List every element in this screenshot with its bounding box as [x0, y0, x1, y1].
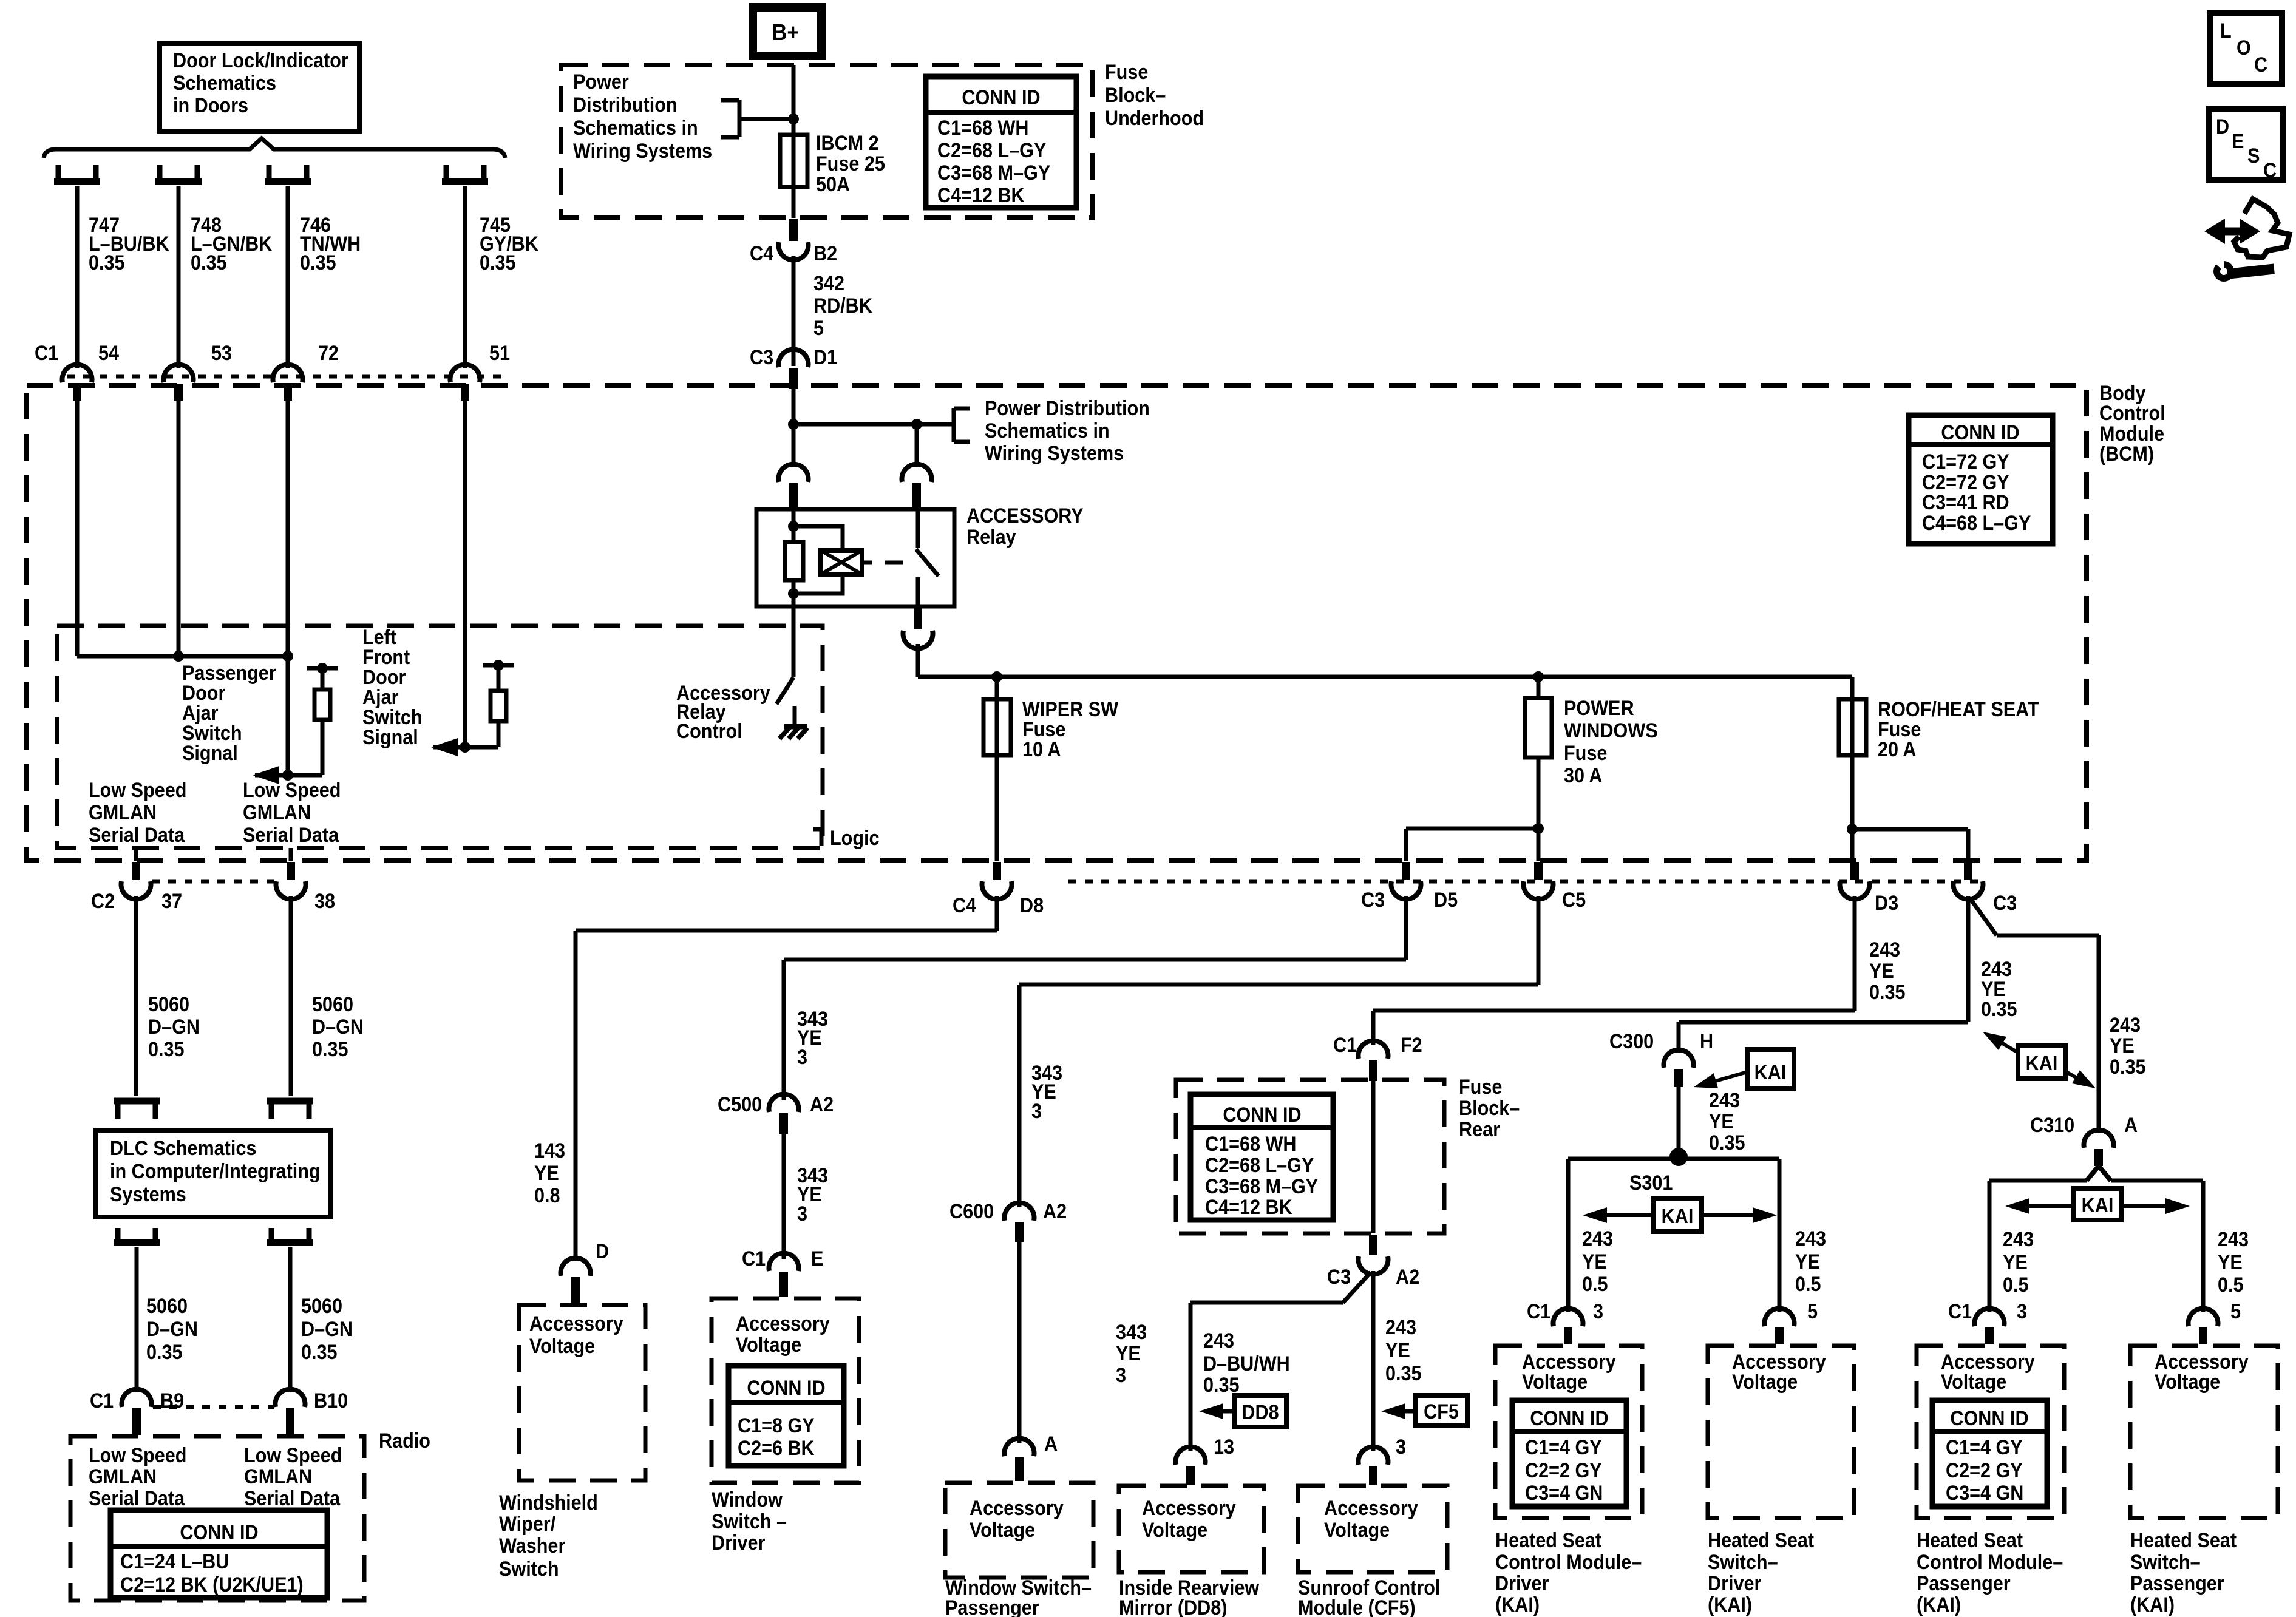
svg-text:C500: C500 [718, 1093, 762, 1116]
svg-text:YE: YE [2003, 1251, 2028, 1274]
svg-text:50A: 50A [816, 173, 850, 196]
svg-text:YE: YE [534, 1162, 559, 1185]
svg-text:Module (CF5): Module (CF5) [1298, 1596, 1416, 1617]
svg-text:GMLAN: GMLAN [89, 801, 157, 824]
svg-text:243: 243 [1709, 1089, 1740, 1112]
svg-text:C1: C1 [1333, 1034, 1357, 1057]
svg-text:Fuse: Fuse [1105, 61, 1148, 84]
svg-text:Driver: Driver [712, 1531, 766, 1554]
svg-text:Low Speed: Low Speed [243, 779, 341, 802]
svg-text:5: 5 [813, 317, 824, 340]
svg-text:C310: C310 [2030, 1114, 2074, 1137]
svg-text:C1=68 WH: C1=68 WH [1205, 1133, 1296, 1156]
svg-text:Passenger: Passenger [1917, 1572, 2011, 1595]
svg-text:Voltage: Voltage [1142, 1519, 1207, 1542]
svg-text:YE: YE [2110, 1034, 2135, 1057]
svg-text:Fuse: Fuse [1564, 742, 1607, 765]
svg-text:GMLAN: GMLAN [243, 801, 311, 824]
svg-text:C2: C2 [91, 890, 115, 913]
svg-text:Serial Data: Serial Data [243, 824, 339, 847]
svg-text:C3=4 GN: C3=4 GN [1525, 1482, 1603, 1505]
svg-text:CONN ID: CONN ID [1950, 1407, 2028, 1430]
svg-text:0.8: 0.8 [534, 1184, 560, 1207]
svg-text:KAI: KAI [2082, 1194, 2114, 1217]
svg-text:H: H [1700, 1030, 1713, 1053]
svg-text:Voltage: Voltage [1941, 1371, 2006, 1394]
svg-text:Passenger: Passenger [2130, 1572, 2224, 1595]
svg-text:in Doors: in Doors [173, 94, 248, 117]
svg-text:C1=4 GY: C1=4 GY [1946, 1436, 2023, 1459]
svg-text:Low Speed: Low Speed [89, 1444, 186, 1467]
svg-text:38: 38 [314, 890, 335, 913]
svg-text:C1: C1 [90, 1389, 114, 1412]
svg-text:Control Module–: Control Module– [1495, 1551, 1642, 1574]
svg-text:243: 243 [2003, 1228, 2034, 1251]
svg-text:S: S [2247, 144, 2260, 168]
svg-text:Voltage: Voltage [1324, 1519, 1390, 1542]
svg-text:0.5: 0.5 [2003, 1273, 2029, 1297]
svg-text:C3=41 RD: C3=41 RD [1922, 491, 2009, 514]
svg-text:GMLAN: GMLAN [89, 1465, 157, 1488]
svg-text:KAI: KAI [1662, 1205, 1694, 1228]
svg-text:YE: YE [1795, 1250, 1820, 1273]
svg-text:243: 243 [1869, 938, 1900, 961]
svg-text:Fuse: Fuse [1459, 1076, 1502, 1099]
svg-text:Schematics in: Schematics in [573, 117, 698, 140]
svg-text:0.35: 0.35 [1709, 1131, 1745, 1154]
svg-text:Accessory: Accessory [736, 1312, 830, 1335]
svg-text:Block–: Block– [1459, 1097, 1520, 1120]
svg-text:C1: C1 [1527, 1300, 1550, 1323]
svg-text:Power: Power [573, 70, 629, 93]
svg-text:GMLAN: GMLAN [244, 1465, 312, 1488]
svg-text:243: 243 [1203, 1329, 1234, 1352]
svg-text:Driver: Driver [1495, 1572, 1549, 1595]
svg-text:D1: D1 [813, 346, 837, 369]
svg-text:C4=12 BK: C4=12 BK [937, 184, 1025, 207]
svg-text:342: 342 [813, 272, 844, 295]
svg-text:Voltage: Voltage [1522, 1371, 1588, 1394]
svg-text:Schematics in: Schematics in [985, 419, 1110, 442]
svg-text:RD/BK: RD/BK [813, 294, 872, 317]
svg-text:0.35: 0.35 [2110, 1056, 2146, 1079]
svg-text:YE: YE [1116, 1342, 1141, 1365]
svg-text:C3: C3 [750, 346, 773, 369]
svg-text:Logic: Logic [830, 827, 880, 850]
svg-text:Voltage: Voltage [736, 1334, 801, 1357]
svg-text:243: 243 [1795, 1227, 1826, 1250]
svg-text:3: 3 [797, 1046, 807, 1069]
svg-text:0.5: 0.5 [1582, 1273, 1608, 1296]
svg-text:Serial Data: Serial Data [244, 1487, 341, 1510]
svg-text:Control: Control [2099, 402, 2165, 425]
svg-text:343: 343 [1116, 1321, 1147, 1344]
svg-text:C4=68 L–GY: C4=68 L–GY [1922, 512, 2031, 535]
svg-text:F2: F2 [1401, 1034, 1422, 1057]
svg-text:Schematics: Schematics [173, 72, 276, 95]
svg-text:C3: C3 [1361, 889, 1385, 912]
svg-text:0.35: 0.35 [89, 251, 125, 274]
svg-text:0.35: 0.35 [312, 1038, 348, 1061]
svg-text:3: 3 [1116, 1364, 1126, 1387]
svg-text:Accessory: Accessory [1142, 1497, 1236, 1520]
svg-text:O: O [2237, 36, 2251, 59]
svg-text:72: 72 [318, 342, 339, 365]
svg-text:D3: D3 [1875, 892, 1898, 915]
svg-text:C2=2 GY: C2=2 GY [1525, 1459, 1602, 1482]
svg-text:C1=24 L–BU: C1=24 L–BU [120, 1550, 229, 1573]
svg-text:C1: C1 [742, 1247, 766, 1270]
svg-text:Washer: Washer [499, 1534, 566, 1558]
svg-text:Switch–: Switch– [2130, 1551, 2201, 1574]
svg-text:in Computer/Integrating: in Computer/Integrating [110, 1160, 321, 1183]
svg-text:Underhood: Underhood [1105, 107, 1204, 130]
svg-text:Signal: Signal [182, 742, 238, 765]
svg-text:A: A [2124, 1114, 2138, 1137]
svg-text:143: 143 [534, 1139, 565, 1162]
svg-text:D–GN: D–GN [148, 1015, 200, 1039]
svg-text:0.35: 0.35 [148, 1038, 185, 1061]
svg-text:Passenger: Passenger [945, 1596, 1039, 1617]
svg-text:Control: Control [676, 720, 742, 743]
svg-text:CONN ID: CONN ID [747, 1377, 825, 1400]
svg-text:ACCESSORY: ACCESSORY [966, 504, 1084, 527]
svg-text:A: A [1044, 1432, 1058, 1456]
svg-text:Voltage: Voltage [529, 1335, 595, 1358]
svg-text:5060: 5060 [312, 993, 353, 1016]
svg-text:YE: YE [1385, 1339, 1410, 1362]
svg-text:0.5: 0.5 [2218, 1273, 2244, 1297]
svg-text:3: 3 [1031, 1100, 1042, 1123]
svg-text:C1=4 GY: C1=4 GY [1525, 1436, 1602, 1459]
svg-text:C3=68 M–GY: C3=68 M–GY [937, 161, 1051, 185]
svg-text:CF5: CF5 [1424, 1400, 1459, 1423]
svg-text:Voltage: Voltage [970, 1519, 1035, 1542]
svg-text:C1: C1 [35, 342, 58, 365]
svg-text:Systems: Systems [110, 1183, 186, 1206]
svg-text:(KAI): (KAI) [1495, 1593, 1540, 1616]
svg-text:A2: A2 [810, 1093, 834, 1116]
svg-text:Door Lock/Indicator: Door Lock/Indicator [173, 49, 348, 72]
svg-text:20 A: 20 A [1878, 738, 1916, 761]
svg-text:Serial Data: Serial Data [89, 1487, 185, 1510]
svg-text:C3=4 GN: C3=4 GN [1946, 1482, 2023, 1505]
svg-text:D–BU/WH: D–BU/WH [1203, 1352, 1290, 1375]
svg-text:C4: C4 [750, 242, 773, 265]
svg-text:C3: C3 [1327, 1266, 1351, 1289]
svg-text:KAI: KAI [1754, 1061, 1787, 1084]
svg-text:YE: YE [1582, 1250, 1607, 1273]
svg-text:C2=6 BK: C2=6 BK [738, 1437, 815, 1460]
svg-text:C5: C5 [1562, 889, 1586, 912]
svg-text:C1=8 GY: C1=8 GY [738, 1414, 815, 1437]
svg-text:C3: C3 [1993, 892, 2017, 915]
svg-text:(KAI): (KAI) [1917, 1593, 1961, 1616]
svg-text:0.35: 0.35 [146, 1341, 183, 1364]
svg-text:Signal: Signal [362, 726, 418, 749]
svg-text:CONN ID: CONN ID [180, 1521, 258, 1544]
svg-text:243: 243 [1385, 1316, 1416, 1339]
svg-text:54: 54 [98, 342, 119, 365]
svg-text:Switch–: Switch– [1708, 1551, 1778, 1574]
svg-text:D: D [596, 1240, 609, 1263]
svg-text:5060: 5060 [146, 1295, 188, 1318]
svg-text:KAI: KAI [2026, 1052, 2058, 1075]
svg-text:S301: S301 [1629, 1171, 1673, 1195]
svg-text:51: 51 [489, 342, 510, 365]
svg-text:53: 53 [211, 342, 232, 365]
svg-text:Accessory: Accessory [529, 1312, 623, 1335]
svg-text:5: 5 [2230, 1300, 2241, 1323]
svg-text:CONN ID: CONN ID [1941, 421, 2019, 444]
svg-text:5060: 5060 [148, 993, 189, 1016]
svg-text:Rear: Rear [1459, 1118, 1500, 1141]
svg-text:YE: YE [1869, 960, 1894, 983]
svg-text:Window: Window [712, 1488, 783, 1511]
svg-text:CONN ID: CONN ID [1223, 1103, 1301, 1127]
svg-text:0.35: 0.35 [1385, 1362, 1422, 1385]
svg-text:243: 243 [1582, 1227, 1613, 1250]
svg-text:C4=12 BK: C4=12 BK [1205, 1196, 1292, 1219]
svg-text:A2: A2 [1043, 1200, 1067, 1223]
svg-text:0.35: 0.35 [1203, 1374, 1240, 1397]
svg-text:13: 13 [1214, 1436, 1234, 1459]
svg-text:E: E [811, 1247, 823, 1270]
svg-text:243: 243 [2110, 1014, 2141, 1037]
svg-text:Wiring Systems: Wiring Systems [573, 140, 712, 163]
svg-text:Control Module–: Control Module– [1917, 1551, 2063, 1574]
svg-text:POWER: POWER [1564, 697, 1634, 720]
svg-text:Low Speed: Low Speed [89, 779, 186, 802]
svg-text:B2: B2 [813, 242, 837, 265]
svg-text:A2: A2 [1396, 1266, 1419, 1289]
svg-text:C4: C4 [953, 894, 976, 917]
svg-text:Block–: Block– [1105, 84, 1166, 107]
svg-text:Serial Data: Serial Data [89, 824, 185, 847]
svg-text:D–GN: D–GN [301, 1318, 353, 1341]
svg-text:3: 3 [1593, 1300, 1603, 1323]
svg-text:C2=68 L–GY: C2=68 L–GY [1205, 1154, 1314, 1177]
svg-text:0.35: 0.35 [301, 1341, 338, 1364]
svg-text:C300: C300 [1609, 1030, 1654, 1053]
svg-text:WINDOWS: WINDOWS [1564, 719, 1658, 742]
svg-text:Power Distribution: Power Distribution [985, 397, 1150, 420]
svg-text:0.35: 0.35 [480, 251, 516, 274]
svg-text:C: C [2263, 159, 2277, 182]
svg-text:10 A: 10 A [1022, 738, 1061, 761]
svg-text:C1=68 WH: C1=68 WH [937, 117, 1028, 140]
svg-text:C3=68 M–GY: C3=68 M–GY [1205, 1175, 1319, 1198]
svg-text:C2=68 L–GY: C2=68 L–GY [937, 139, 1047, 162]
svg-text:(KAI): (KAI) [1708, 1593, 1752, 1616]
svg-text:Wiper/: Wiper/ [499, 1513, 555, 1536]
svg-text:Low Speed: Low Speed [244, 1444, 342, 1467]
svg-text:C1=72 GY: C1=72 GY [1922, 450, 2009, 473]
svg-text:5: 5 [1807, 1300, 1818, 1323]
svg-text:Heated Seat: Heated Seat [2130, 1529, 2237, 1552]
svg-text:0.35: 0.35 [300, 251, 336, 274]
svg-text:Voltage: Voltage [1732, 1371, 1798, 1394]
svg-text:Windshield: Windshield [499, 1491, 598, 1514]
svg-text:CONN ID: CONN ID [1530, 1407, 1608, 1430]
svg-text:Mirror (DD8): Mirror (DD8) [1119, 1596, 1227, 1617]
svg-text:(BCM): (BCM) [2099, 442, 2154, 466]
svg-text:B+: B+ [772, 19, 800, 45]
svg-text:Switch: Switch [499, 1558, 559, 1581]
svg-text:E: E [2232, 130, 2244, 153]
svg-text:Heated Seat: Heated Seat [1495, 1529, 1601, 1552]
svg-text:Radio: Radio [379, 1429, 430, 1453]
svg-text:0.5: 0.5 [1795, 1273, 1821, 1296]
svg-text:DD8: DD8 [1241, 1401, 1279, 1424]
svg-text:Relay: Relay [966, 526, 1016, 549]
svg-text:YE: YE [1709, 1110, 1734, 1133]
svg-text:D–GN: D–GN [312, 1015, 364, 1039]
svg-text:3: 3 [1396, 1436, 1406, 1459]
svg-text:3: 3 [2017, 1300, 2027, 1323]
svg-text:Driver: Driver [1708, 1572, 1762, 1595]
svg-text:C1: C1 [1948, 1300, 1972, 1323]
svg-text:C600: C600 [949, 1200, 994, 1223]
svg-text:Accessory: Accessory [970, 1497, 1064, 1520]
svg-text:YE: YE [2218, 1251, 2243, 1274]
svg-text:Fuse 25: Fuse 25 [816, 152, 885, 175]
svg-text:D8: D8 [1020, 894, 1044, 917]
svg-text:B10: B10 [314, 1389, 348, 1412]
svg-text:0.35: 0.35 [191, 251, 227, 274]
svg-text:IBCM 2: IBCM 2 [816, 132, 879, 155]
svg-text:D5: D5 [1434, 889, 1458, 912]
svg-text:Voltage: Voltage [2155, 1371, 2220, 1394]
svg-text:L: L [2220, 19, 2232, 42]
svg-text:Distribution: Distribution [573, 93, 678, 117]
svg-text:D: D [2216, 115, 2229, 138]
svg-text:30 A: 30 A [1564, 764, 1602, 787]
svg-text:C: C [2254, 53, 2267, 76]
svg-text:Heated Seat: Heated Seat [1708, 1529, 1814, 1552]
svg-text:CONN ID: CONN ID [962, 86, 1040, 109]
svg-text:Heated Seat: Heated Seat [1917, 1529, 2023, 1552]
svg-text:(KAI): (KAI) [2130, 1593, 2175, 1616]
svg-text:0.35: 0.35 [1869, 981, 1906, 1004]
svg-text:C2=12 BK (U2K/UE1): C2=12 BK (U2K/UE1) [120, 1573, 304, 1596]
svg-text:37: 37 [161, 890, 182, 913]
svg-text:3: 3 [797, 1202, 807, 1225]
svg-text:Wiring Systems: Wiring Systems [985, 442, 1124, 465]
svg-text:Switch –: Switch – [712, 1510, 787, 1533]
svg-text:D–GN: D–GN [146, 1318, 198, 1341]
svg-text:5060: 5060 [301, 1295, 342, 1318]
svg-text:C2=2 GY: C2=2 GY [1946, 1459, 2023, 1482]
svg-text:DLC Schematics: DLC Schematics [110, 1137, 256, 1160]
svg-text:Accessory: Accessory [1324, 1497, 1418, 1520]
svg-text:0.35: 0.35 [1981, 998, 2017, 1021]
svg-text:243: 243 [2218, 1228, 2249, 1251]
